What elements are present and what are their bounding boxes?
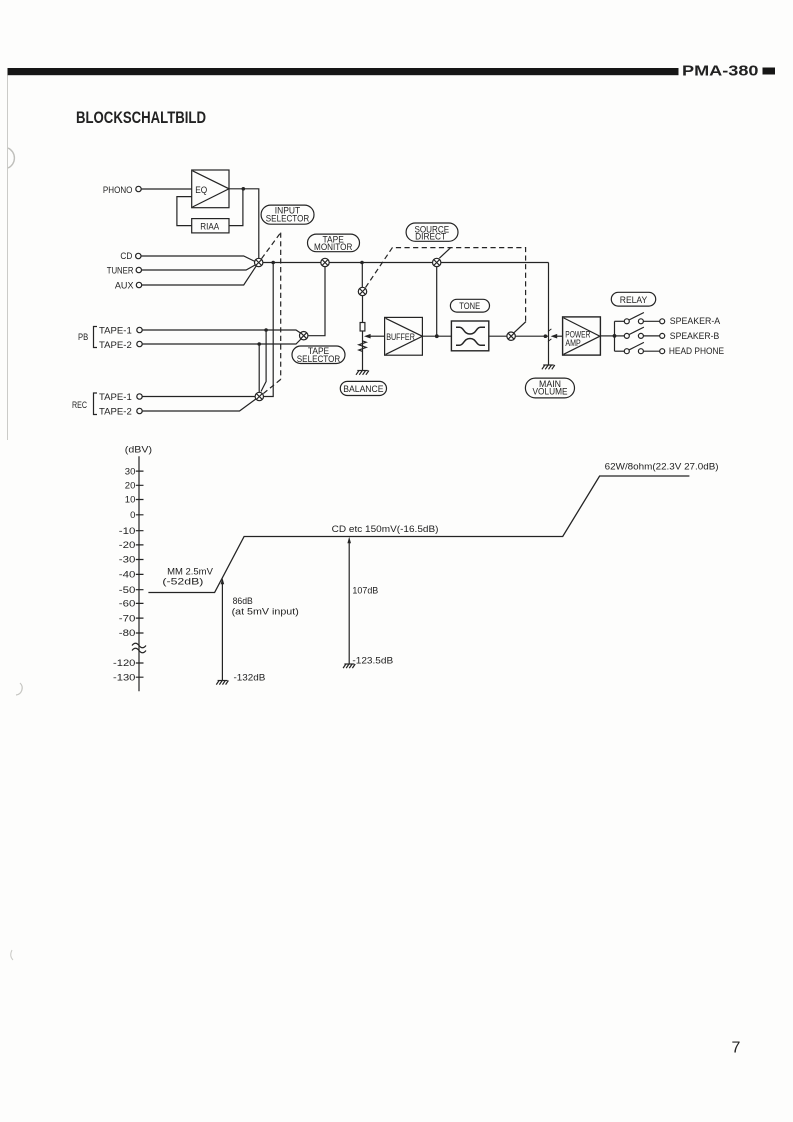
level diagram curve — [148, 476, 689, 593]
label INPUT SELECTOR — [261, 205, 314, 224]
arrow 107dB gain — [347, 537, 351, 664]
input terminal AUX — [115, 281, 142, 291]
svg-text:AMP: AMP — [565, 338, 580, 348]
header bar — [8, 68, 679, 75]
svg-text:-10: -10 — [119, 526, 136, 536]
input terminal PB TAPE-2 — [99, 340, 142, 350]
svg-text:HEAD PHONE: HEAD PHONE — [669, 346, 724, 356]
gang link source direct dashed — [366, 248, 526, 322]
svg-text:CD: CD — [120, 251, 132, 261]
svg-text:0: 0 — [130, 510, 135, 520]
node PB TAPE-2 junction — [257, 342, 261, 346]
label RELAY — [611, 292, 655, 306]
wire power amp output — [600, 335, 614, 337]
switch balance input — [358, 287, 366, 295]
label TONE — [450, 299, 489, 312]
svg-text:-40: -40 — [119, 570, 136, 580]
wire AUX to input selector — [142, 266, 257, 286]
svg-text:DIRECT: DIRECT — [415, 232, 446, 242]
node EQ output junction — [242, 187, 246, 191]
resistor balance lower zigzag — [359, 341, 366, 352]
svg-text:86dB: 86dB — [233, 596, 253, 606]
resistor balance upper — [360, 323, 365, 332]
wire REC TAPE-1 to rec selector — [142, 396, 255, 398]
level diagram axis — [113, 445, 152, 692]
wire EQ feedback loop — [177, 197, 192, 226]
wire REC TAPE-2 to rec selector — [142, 399, 256, 412]
label MAIN VOLUME — [525, 378, 574, 398]
svg-text:20: 20 — [125, 481, 136, 491]
svg-text:SELECTOR: SELECTOR — [297, 354, 341, 364]
wire PB TAPE-2 to tape selector — [142, 338, 302, 344]
label BALANCE — [340, 381, 386, 395]
wire tape selector to tape monitor — [308, 267, 325, 336]
svg-text:(dBV): (dBV) — [125, 445, 152, 455]
svg-text:TAPE-1: TAPE-1 — [99, 325, 132, 335]
node volume wiper junction — [544, 334, 548, 338]
wire main bus — [259, 262, 549, 264]
svg-text:-123.5dB: -123.5dB — [352, 655, 393, 665]
svg-text:62W/8ohm(22.3V 27.0dB): 62W/8ohm(22.3V 27.0dB) — [605, 461, 719, 471]
potentiometer balance wiper arrow — [364, 334, 385, 339]
svg-text:7: 7 — [732, 1040, 741, 1057]
annotation MM 2.5mV — [162, 567, 213, 587]
wire RIAA output to EQ output node — [229, 189, 243, 226]
switch input selector — [255, 258, 263, 266]
relay switch SPEAKER-A — [615, 313, 721, 327]
gang link input selector to rec selector dashed — [262, 233, 281, 394]
svg-text:(-52dB): (-52dB) — [162, 576, 203, 586]
input terminal PB TAPE-1 — [99, 325, 142, 335]
svg-text:-30: -30 — [119, 555, 136, 565]
svg-text:30: 30 — [125, 466, 136, 476]
svg-text:TAPE-2: TAPE-2 — [99, 406, 132, 416]
relay switch HEAD PHONE — [615, 342, 725, 356]
wire balance chain — [362, 296, 364, 371]
svg-text:-50: -50 — [119, 585, 136, 595]
svg-text:PB: PB — [78, 332, 88, 342]
ground balance — [356, 371, 369, 375]
svg-text:BLOCKSCHALTBILD: BLOCKSCHALTBILD — [76, 108, 206, 127]
potentiometer main volume — [548, 263, 562, 365]
wire tone output to volume — [489, 335, 549, 337]
label REC bracket — [72, 393, 97, 415]
svg-text:-132dB: -132dB — [234, 672, 266, 682]
wire junction A to rec selector — [264, 263, 274, 397]
switch source direct main — [433, 258, 441, 266]
arrow 86dB gain — [221, 578, 225, 681]
svg-text:RIAA: RIAA — [200, 221, 219, 231]
op-amp EQ — [192, 170, 229, 208]
switch tone output — [507, 332, 515, 340]
op-amp BUFFER — [385, 317, 423, 355]
svg-text:-60: -60 — [119, 599, 136, 609]
svg-text:BUFFER: BUFFER — [386, 332, 415, 342]
svg-text:-120: -120 — [113, 658, 135, 668]
input terminal PHONO — [103, 185, 141, 195]
amplifier POWER AMP — [563, 317, 601, 355]
input terminal REC TAPE-2 — [99, 406, 142, 416]
wire source direct bypass vertical — [436, 267, 438, 337]
wire CD to input selector — [141, 256, 256, 262]
label TAPE SELECTOR — [292, 346, 345, 364]
wire junction B to balance switch — [361, 263, 363, 288]
svg-text:10: 10 — [125, 495, 136, 505]
svg-text:TUNER: TUNER — [107, 266, 134, 276]
svg-text:PHONO: PHONO — [103, 185, 132, 195]
svg-text:EQ: EQ — [195, 185, 207, 196]
svg-text:MONITOR: MONITOR — [314, 242, 353, 252]
wire PB TAPE-2 junction to rec selector — [258, 344, 260, 392]
label TAPE MONITOR — [308, 234, 360, 252]
svg-text:-80: -80 — [119, 628, 136, 638]
ground 86dB arrow — [216, 681, 228, 685]
svg-text:VOLUME: VOLUME — [533, 387, 568, 397]
node main bus junction B — [360, 261, 364, 265]
svg-text:AUX: AUX — [115, 281, 134, 291]
switch tape monitor — [321, 258, 329, 266]
ground main volume — [542, 365, 555, 369]
block TONE — [451, 321, 488, 351]
svg-text:RELAY: RELAY — [620, 295, 648, 305]
switch tape selector — [300, 332, 308, 340]
node main bus junction A — [271, 261, 275, 265]
switch rec selector — [255, 392, 263, 400]
wire EQ output to input selector — [229, 189, 259, 258]
svg-text:MM 2.5mV: MM 2.5mV — [167, 567, 213, 577]
node power amp output junction — [613, 334, 617, 338]
label SOURCE DIRECT — [406, 223, 458, 242]
input terminal REC TAPE-1 — [99, 392, 142, 402]
ground 107dB arrow — [343, 664, 355, 668]
svg-text:-20: -20 — [119, 540, 136, 550]
wire relay bus — [614, 321, 616, 351]
node PB TAPE-1 junction — [264, 328, 268, 332]
svg-text:TAPE-1: TAPE-1 — [99, 392, 132, 402]
svg-text:PMA-380: PMA-380 — [682, 63, 759, 79]
label PB bracket — [78, 327, 97, 348]
svg-text:SPEAKER-A: SPEAKER-A — [670, 316, 720, 326]
switch source direct main lever — [439, 248, 450, 258]
wire TUNER to input selector — [142, 265, 257, 271]
annotation 86dB — [232, 596, 299, 682]
svg-text:SPEAKER-B: SPEAKER-B — [670, 331, 720, 341]
svg-text:107dB: 107dB — [352, 586, 378, 596]
input terminal TUNER — [107, 266, 142, 276]
svg-text:-70: -70 — [119, 613, 136, 623]
header end square — [763, 68, 776, 75]
block RIAA — [192, 219, 229, 233]
svg-text:TONE: TONE — [459, 301, 480, 311]
wire PHONO to EQ — [141, 188, 192, 190]
svg-text:BALANCE: BALANCE — [343, 384, 383, 394]
annotation 107dB — [352, 586, 393, 666]
relay switch SPEAKER-B — [615, 327, 720, 341]
switch tone output lever — [514, 322, 526, 333]
svg-text:TAPE-2: TAPE-2 — [99, 340, 132, 350]
wire PB TAPE-1 to tape selector — [142, 330, 302, 334]
input terminal CD — [120, 251, 141, 261]
svg-text:(at 5mV input): (at 5mV input) — [232, 606, 299, 616]
svg-text:REC: REC — [72, 400, 87, 410]
svg-text:-130: -130 — [113, 672, 135, 682]
node buffer output junction — [435, 334, 439, 338]
wire buffer output to tone — [422, 335, 451, 337]
svg-text:SELECTOR: SELECTOR — [266, 214, 310, 224]
svg-text:CD etc 150mV(-16.5dB): CD etc 150mV(-16.5dB) — [332, 524, 439, 534]
wire PB TAPE-1 junction to rec selector — [261, 330, 266, 392]
